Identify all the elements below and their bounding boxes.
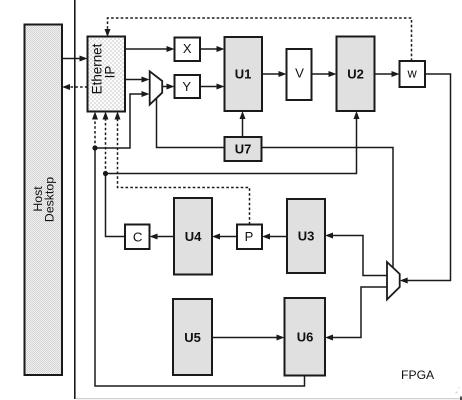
wire: demux M2 upper output to U3 xyxy=(332,236,387,276)
wire: Y to U1 xyxy=(200,86,218,88)
svg-text:U4: U4 xyxy=(185,229,202,244)
wire: Ethernet to Host (dashed) xyxy=(69,86,88,88)
svg-text:U3: U3 xyxy=(298,229,315,244)
wire: U6 bottom loop to node N1 xyxy=(95,148,305,386)
svg-text:Desktop: Desktop xyxy=(43,177,57,222)
wire: node N2 down to C xyxy=(106,174,126,237)
svg-text:Y: Y xyxy=(182,79,191,94)
bottom window edge xyxy=(76,398,462,400)
block Host Desktop xyxy=(25,25,63,376)
block X xyxy=(175,38,201,62)
svg-text:FPGA: FPGA xyxy=(401,368,435,382)
svg-text:U6: U6 xyxy=(297,330,314,345)
demux M2 xyxy=(387,262,400,300)
wire: Ethernet to mux M1 upper input xyxy=(125,79,143,81)
wire: U4 to C xyxy=(157,236,175,238)
svg-text:IP: IP xyxy=(103,66,118,79)
svg-text:w: w xyxy=(406,66,417,81)
block C xyxy=(125,225,150,250)
block U4 xyxy=(174,198,212,275)
block Ethernet IP xyxy=(88,37,126,112)
mux M1 xyxy=(150,71,163,104)
block U5 xyxy=(173,299,212,375)
block U6 xyxy=(285,298,326,376)
block U7 xyxy=(225,137,262,161)
svg-text:X: X xyxy=(183,41,192,56)
corner mark xyxy=(460,397,462,400)
wire: U2 to w xyxy=(375,73,393,75)
svg-text:U5: U5 xyxy=(184,330,201,345)
wire: V to U2 xyxy=(312,73,330,75)
node N2 xyxy=(103,171,108,176)
wire: X to U1 xyxy=(200,48,218,50)
wire: P top to Ethernet bottom (dashed) xyxy=(118,118,250,225)
block U2 xyxy=(337,37,375,112)
block V xyxy=(287,49,312,100)
wire: node N1 to Ethernet bottom (dashed) xyxy=(94,118,96,148)
FPGA boundary line xyxy=(74,0,76,399)
wire: U3 to P xyxy=(269,236,287,238)
svg-text:U7: U7 xyxy=(235,142,252,157)
block P xyxy=(237,225,262,250)
wire: w to demux M2 right input xyxy=(407,74,451,281)
wire: demux M2 lower output to U6 xyxy=(332,287,387,338)
svg-text:V: V xyxy=(295,66,304,81)
block Y xyxy=(175,75,201,98)
wire: mux M1 select to U7 to demux M2 select (drawn under U7) xyxy=(157,99,394,268)
wire: node N2 to Ethernet bottom (dashed) xyxy=(105,118,107,174)
svg-text:C: C xyxy=(133,229,143,244)
wire: Ethernet to X xyxy=(125,48,168,50)
wire: w top to Ethernet top (dashed) xyxy=(108,18,412,61)
wire: mux M1 to Y xyxy=(162,86,167,88)
wire: node N2 to U2 bottom xyxy=(106,118,357,174)
wire: Host to Ethernet xyxy=(62,58,81,60)
wire: loop to mux M1 lower input xyxy=(95,94,143,148)
node N1 xyxy=(92,145,97,150)
block U3 xyxy=(287,199,325,273)
wire: U1 to V xyxy=(262,73,280,75)
svg-text:U1: U1 xyxy=(235,67,252,82)
block U1 xyxy=(225,37,263,111)
block w xyxy=(400,61,426,87)
svg-text:U2: U2 xyxy=(347,67,364,82)
wire: P to U4 xyxy=(219,236,237,238)
wire: U7 to U1 bottom xyxy=(242,118,244,137)
wire: U5 to U6 xyxy=(212,337,278,339)
svg-text:P: P xyxy=(245,229,254,244)
